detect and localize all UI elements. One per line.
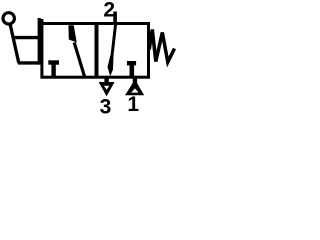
svg-text:3: 3 bbox=[100, 95, 112, 118]
svg-text:2: 2 bbox=[103, 0, 115, 22]
svg-text:1: 1 bbox=[127, 93, 139, 116]
